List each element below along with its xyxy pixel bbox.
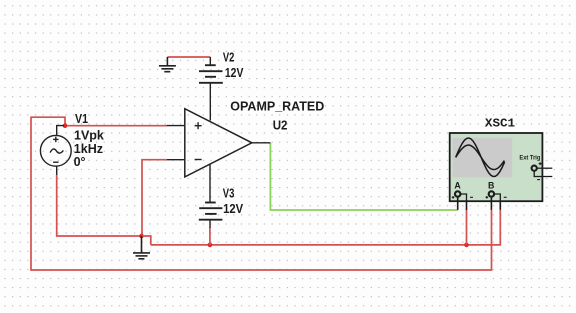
svg-text:12V: 12V — [225, 65, 244, 80]
svg-text:V1: V1 — [75, 112, 88, 126]
XSC1 channel A terminal — [452, 191, 473, 210]
svg-text:1Vpk: 1Vpk — [74, 128, 104, 142]
svg-text:1kHz: 1kHz — [74, 142, 103, 156]
ground GND1 (top) — [159, 57, 176, 72]
junction node IN — [63, 123, 68, 128]
junction A- on ground bus — [464, 243, 469, 248]
wire: V3 minus to ground bus (red) — [209, 228, 211, 245]
wire: op-amp output to scope A+ (green net OUT) — [270, 143, 457, 210]
XSC1 channel B terminal — [486, 191, 507, 210]
svg-text:V3: V3 — [223, 186, 235, 200]
svg-text:B: B — [488, 181, 494, 191]
svg-text:12V: 12V — [223, 201, 243, 216]
oscilloscope XSC1 body — [450, 133, 543, 201]
ground GND2 (bottom) — [133, 236, 150, 259]
svg-text:OPAMP_RATED: OPAMP_RATED — [230, 100, 324, 114]
svg-text:U2: U2 — [273, 118, 288, 133]
wire: scope A- to ground bus (red) — [466, 210, 468, 245]
wire: node IN loop from junction to scope B+ (red) — [31, 117, 492, 270]
battery V3 — [199, 164, 223, 228]
wire: op-amp minus input to ground junction (red) — [142, 160, 167, 236]
svg-text:Ext Trig: Ext Trig — [519, 154, 540, 161]
XSC1 screen with traces — [453, 138, 513, 178]
battery V2 — [199, 57, 223, 121]
XSC1 Ext Trig terminal — [532, 162, 553, 179]
AC source V1 — [40, 126, 71, 175]
svg-text:XSC1: XSC1 — [485, 116, 515, 130]
junction ground node — [139, 234, 144, 239]
wire: V1 minus terminal to ground junction (red) — [57, 175, 142, 237]
wire: junction IN to op-amp + input (red) — [65, 125, 167, 127]
svg-text:A: A — [454, 181, 461, 191]
wire: ground junction step to ground bus (red) — [142, 236, 151, 245]
junction V3 on ground bus — [208, 243, 213, 248]
svg-text:0°: 0° — [74, 155, 86, 169]
svg-text:V2: V2 — [223, 51, 235, 65]
wire: V2 top to ground GND1 (red) — [167, 56, 210, 58]
wire: ground bus to scope B- (red) — [151, 210, 501, 245]
op-amp U2 — [167, 109, 271, 177]
